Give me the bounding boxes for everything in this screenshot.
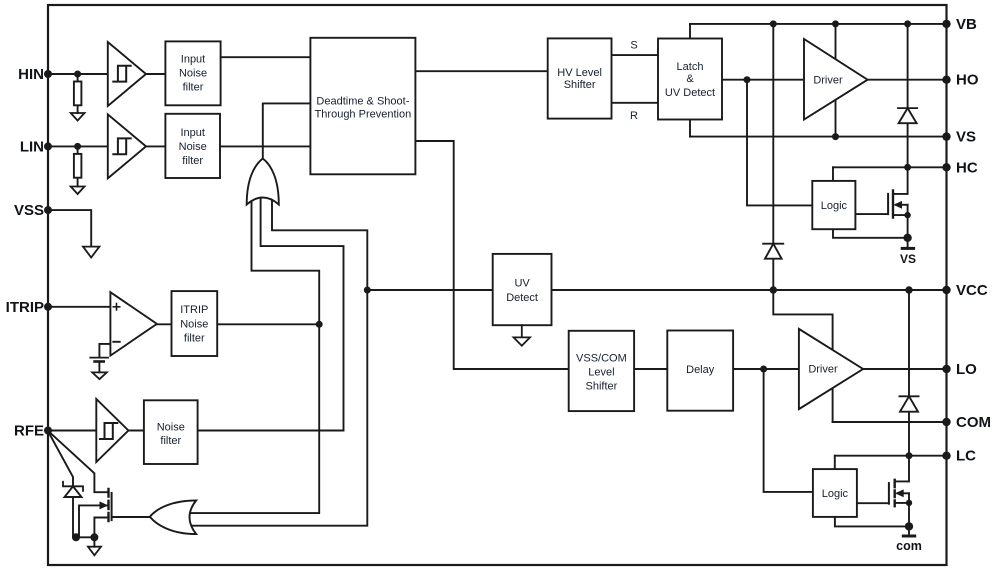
- svg-text:Logic: Logic: [821, 200, 848, 212]
- node LIN resistor junction: [74, 143, 81, 150]
- junction mosfet Q2 source tap: [906, 500, 912, 506]
- wire VB to latch top: [689, 24, 691, 39]
- node HIN pin dot: [44, 70, 52, 78]
- node ITRIP pin dot: [44, 303, 52, 311]
- node LO pin dot: [942, 365, 950, 373]
- svg-text:filter: filter: [184, 333, 205, 345]
- hysteresis glyph U1: [113, 66, 130, 82]
- driver 2 (low side): [799, 329, 863, 409]
- wire S net HV level shifter to latch: [612, 54, 659, 56]
- svg-text:Shifter: Shifter: [564, 79, 596, 91]
- mosfet Q2 body arrow: [896, 490, 903, 496]
- schmitt buffer U3 (RFE): [96, 399, 128, 462]
- wire OR1 input 1 from node A vertical to OR2 input 1: [191, 198, 319, 513]
- OR gate OR1 (vertical, output up): [247, 159, 279, 205]
- svg-text:S: S: [630, 40, 637, 52]
- junction mosfet Q2 source node: [905, 522, 913, 530]
- wire latch bottom to VS row: [689, 120, 691, 137]
- svg-text:VCC: VCC: [956, 282, 988, 299]
- svg-text:Noise: Noise: [180, 319, 208, 331]
- wire diode D1 column VB to HC and mosfet Q1 drain: [893, 24, 908, 194]
- wire delay output node to logic 2 input: [764, 369, 813, 492]
- mosfet Q2 channel segments: [894, 480, 896, 506]
- ground symbol under UV detect: [514, 325, 530, 346]
- node HIN resistor junction: [74, 71, 81, 78]
- svg-text:Logic: Logic: [822, 488, 849, 500]
- schmitt buffer U1 (HIN): [108, 42, 146, 106]
- comparator minus mark: [113, 341, 119, 343]
- svg-text:VS: VS: [900, 252, 916, 266]
- block noise filter (RFE): [144, 400, 198, 464]
- comparator U4 (ITRIP): [110, 292, 156, 355]
- com reference bar under Q2: [903, 535, 914, 538]
- wire OR2 output to mosfet Q3 gate: [112, 516, 150, 518]
- block input noise filter 1: [165, 41, 220, 105]
- wire deadtime bottom output to VSS/COM level shifter: [415, 141, 568, 369]
- svg-text:VSS: VSS: [14, 202, 44, 219]
- wire latch output to driver 1 input: [722, 79, 804, 81]
- resistor R2 (LIN pulldown): [74, 154, 82, 178]
- wire reference to ground: [98, 362, 100, 373]
- svg-text:ITRIP: ITRIP: [180, 304, 208, 316]
- wire logic 2 bottom to mosfet Q2 source: [835, 517, 909, 527]
- diode D1 triangle: [899, 108, 917, 123]
- svg-text:R: R: [630, 110, 638, 122]
- wire VSS pin to ground: [48, 210, 91, 247]
- node VS pin dot: [942, 132, 950, 140]
- wire mosfet Q2 source tap: [895, 502, 909, 504]
- wire RFE diagonal to mosfet Q3 drain: [48, 431, 109, 493]
- svg-text:Noise: Noise: [179, 141, 207, 153]
- junction LC mosfet Q2 drain: [906, 452, 913, 459]
- junction mosfet Q1 source node: [903, 234, 911, 242]
- junction VS driver supply: [832, 133, 839, 140]
- schmitt buffer U2 (LIN): [108, 114, 146, 178]
- svg-text:COM: COM: [956, 414, 991, 431]
- svg-text:Input: Input: [181, 54, 205, 66]
- wire zener Z1 column to ground node: [72, 497, 74, 537]
- wire R net HV level shifter to latch: [612, 102, 659, 104]
- svg-text:Noise: Noise: [179, 68, 207, 80]
- ground symbol under R2: [71, 187, 85, 195]
- mosfet Q1 channel segments: [892, 190, 894, 217]
- svg-text:HC: HC: [956, 159, 978, 176]
- hysteresis glyph U3: [100, 423, 117, 439]
- wire mosfet Q1 body tap: [896, 204, 908, 206]
- wire ITRIP row to comparator plus input: [48, 306, 110, 308]
- wire mosfet Q1 source column to VS reference: [907, 205, 909, 249]
- node VCC pin dot: [942, 286, 950, 294]
- reference battery plates at comparator: [90, 357, 108, 359]
- mosfet Q2 gate bar: [888, 483, 890, 504]
- node RFE pin dot: [44, 427, 52, 435]
- wire LO row driver 2 output to pin: [863, 368, 946, 370]
- svg-text:Delay: Delay: [686, 364, 715, 376]
- junction VB driver supply column: [832, 20, 839, 27]
- svg-text:ITRIP: ITRIP: [6, 299, 44, 316]
- wire ITRIP noise filter output to node A: [217, 323, 319, 325]
- wire ground node connector: [73, 537, 94, 546]
- ground symbol under R1: [71, 113, 85, 121]
- diode D1 cathode bar: [898, 107, 917, 109]
- junction mosfet Q3 ground node: [90, 533, 98, 541]
- wire LC row: [835, 455, 947, 457]
- diode D2 triangle: [900, 396, 918, 411]
- junction mosfet Q1 source tap: [904, 212, 910, 218]
- svg-text:UV Detect: UV Detect: [665, 87, 715, 99]
- node UV detect input junction: [364, 287, 371, 294]
- node VB pin dot: [942, 20, 950, 28]
- svg-text:filter: filter: [183, 82, 204, 94]
- svg-text:Through Prevention: Through Prevention: [315, 109, 412, 121]
- mosfet Q3 gate bar: [111, 493, 113, 520]
- wire OR1 input 3 from UV detect node to OR2 input 2: [191, 198, 367, 526]
- mosfet Q3 body arrow: [100, 502, 107, 508]
- wire mosfet Q2 body tap: [898, 492, 910, 494]
- svg-text:Deadtime & Shoot-: Deadtime & Shoot-: [316, 96, 409, 108]
- wire RFE row to schmitt U3 input: [48, 430, 96, 432]
- wire delay output to driver 2 input: [733, 368, 799, 370]
- wire HC row: [833, 166, 947, 168]
- mosfet Q3 channel segments: [107, 489, 109, 521]
- wire LIN row to schmitt U2 input: [48, 145, 108, 147]
- wire logic 1 bottom to mosfet Q1 source: [833, 229, 908, 238]
- svg-text:HV Level: HV Level: [557, 67, 602, 79]
- wire schmitt U3 output to noise filter: [128, 430, 144, 432]
- junction zener ground node: [72, 533, 80, 541]
- block latch and UV detect: [658, 39, 722, 120]
- block logic 1 (high side): [812, 181, 855, 229]
- wire LIN pulldown resistor column: [77, 146, 79, 186]
- svg-text:UV: UV: [514, 277, 530, 289]
- wire HIN row to schmitt U1 input: [48, 73, 108, 75]
- zener Z1 triangle: [65, 486, 82, 497]
- svg-text:VSS/COM: VSS/COM: [576, 353, 627, 365]
- junction delay output node: [760, 366, 767, 373]
- resistor R1 (HIN pulldown): [74, 82, 82, 106]
- block UV detect: [493, 254, 552, 325]
- mosfet Q1 gate bar: [887, 194, 889, 214]
- junction VB bootstrap column: [770, 20, 777, 27]
- wire latch output node to logic 1 input: [747, 80, 812, 206]
- bootstrap diode D3 cathode bar: [763, 243, 783, 245]
- wire bootstrap diode column VB to VCC to driver 2 supply: [773, 24, 832, 422]
- node LC pin dot: [942, 452, 950, 460]
- node HC pin dot: [942, 163, 950, 171]
- svg-text:filter: filter: [182, 155, 203, 167]
- wire HC row drop to logic 1 top: [832, 167, 834, 181]
- junction VCC diode D2 column: [905, 286, 912, 293]
- wire VB row: [690, 23, 947, 25]
- wire input noise filter 1 output to deadtime block: [221, 56, 311, 58]
- svg-text:LIN: LIN: [20, 138, 44, 155]
- junction VB diode D1 column: [904, 20, 911, 27]
- svg-text:Shifter: Shifter: [586, 381, 618, 393]
- svg-text:Input: Input: [180, 127, 204, 139]
- svg-text:&: &: [686, 73, 694, 85]
- wire diode D2 column VCC to LC and mosfet Q2 drain: [895, 290, 909, 481]
- hysteresis glyph U2: [113, 138, 130, 154]
- wire VCC row through UV Detect: [367, 289, 946, 291]
- block input noise filter 2: [165, 114, 220, 178]
- wire OR1 output to deadtime block: [263, 103, 311, 158]
- bootstrap diode D3 triangle: [765, 244, 782, 259]
- block ITRIP noise filter: [172, 291, 218, 356]
- wire deadtime top output to HV level shifter: [415, 70, 547, 72]
- wire mosfet Q3 source tap to ground node: [94, 518, 108, 538]
- svg-text:Noise: Noise: [157, 421, 185, 433]
- zener Z1 cathode bar with ticks: [63, 482, 83, 491]
- comparator plus mark: [113, 304, 119, 310]
- wire comparator output to ITRIP noise filter: [157, 323, 172, 325]
- junction VCC bootstrap column: [770, 286, 777, 293]
- svg-text:VB: VB: [956, 16, 977, 33]
- wire RFE diagonal to zener Z1: [48, 431, 73, 487]
- svg-text:Driver: Driver: [813, 75, 843, 87]
- wire mosfet Q3 body tap: [79, 505, 107, 537]
- svg-text:Driver: Driver: [808, 364, 838, 376]
- svg-text:RFE: RFE: [14, 423, 44, 440]
- block VSS/COM level shifter: [569, 331, 634, 411]
- junction HC mosfet Q1 drain: [904, 164, 911, 171]
- wire schmitt U2 output to input noise filter 2: [146, 145, 165, 147]
- svg-text:HIN: HIN: [18, 66, 44, 83]
- svg-text:filter: filter: [160, 435, 181, 447]
- node A ITRIP filter output junction: [316, 321, 323, 328]
- ground symbol under reference: [92, 372, 107, 379]
- svg-text:Latch: Latch: [677, 61, 704, 73]
- svg-text:com: com: [896, 539, 922, 553]
- svg-text:VS: VS: [956, 129, 976, 146]
- wire HO row driver 1 output to pin: [868, 79, 947, 81]
- OR gate OR2 (horizontal, output left): [150, 500, 196, 534]
- svg-text:LO: LO: [956, 361, 977, 378]
- diode D2 cathode bar: [899, 395, 918, 397]
- wire VS row: [690, 136, 947, 138]
- wire HIN pulldown resistor column: [77, 74, 79, 113]
- wire logic 1 to mosfet Q1 gate: [855, 213, 888, 215]
- wire COM row: [833, 421, 947, 423]
- wire driver 1 supply column: [835, 24, 837, 137]
- mosfet Q1 body arrow: [895, 202, 902, 208]
- block deadtime and shoot-through prevention: [310, 38, 415, 175]
- svg-text:Detect: Detect: [506, 292, 538, 304]
- wire VSS/COM level shifter to delay: [634, 368, 667, 370]
- wire mosfet Q2 source column to com reference: [908, 493, 910, 536]
- wire mosfet Q1 source tap: [893, 214, 908, 216]
- svg-text:Level: Level: [588, 367, 614, 379]
- wire schmitt U1 output to input noise filter 1: [146, 73, 165, 75]
- svg-text:LC: LC: [956, 448, 976, 465]
- ground symbol under mosfet Q3: [88, 547, 101, 556]
- wire OR1 input 2 from noise filter output: [198, 198, 344, 431]
- wire comparator minus input to reference: [99, 344, 110, 358]
- junction latch output node: [744, 76, 751, 83]
- node HO pin dot: [942, 76, 950, 84]
- block HV level shifter: [548, 38, 612, 118]
- wire input noise filter 2 output to deadtime block: [220, 145, 310, 147]
- node LIN pin dot: [44, 142, 52, 150]
- svg-text:HO: HO: [956, 72, 979, 89]
- VS reference bar under Q1: [902, 247, 913, 250]
- block delay: [667, 331, 733, 411]
- node COM pin dot: [942, 418, 950, 426]
- wire LC row drop to logic 2 top: [834, 456, 836, 469]
- ground symbol VSS: [83, 247, 99, 258]
- wire logic 2 to mosfet Q2 gate: [857, 502, 889, 504]
- node VSS pin dot: [44, 206, 52, 214]
- driver 1 (high side): [804, 39, 868, 120]
- block logic 2 (low side): [813, 469, 857, 517]
